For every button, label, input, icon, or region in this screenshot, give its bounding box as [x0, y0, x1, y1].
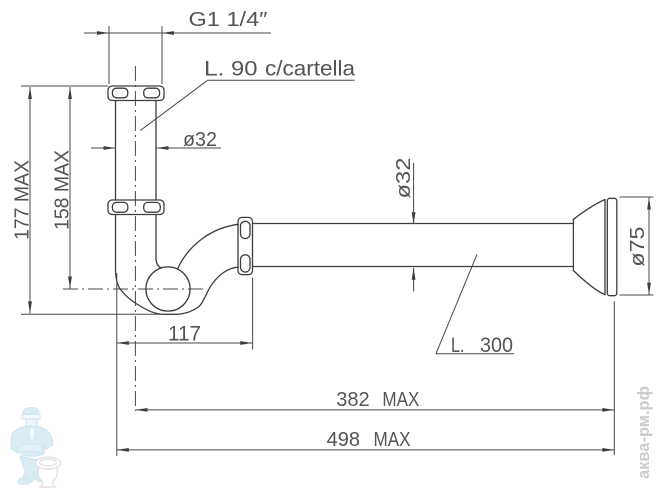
svg-text:MAX: MAX — [382, 389, 419, 411]
svg-text:300: 300 — [480, 334, 513, 357]
svg-text:117: 117 — [168, 323, 201, 346]
svg-text:аква-рм.рф: аква-рм.рф — [634, 386, 653, 479]
svg-text:ø32: ø32 — [183, 129, 217, 151]
svg-text:ø75: ø75 — [627, 227, 649, 267]
svg-text:MAX: MAX — [374, 429, 411, 451]
svg-text:498: 498 — [327, 429, 360, 451]
svg-text:c/cartella: c/cartella — [265, 58, 355, 81]
svg-text:L.: L. — [204, 58, 225, 81]
svg-text:G1 1/4″: G1 1/4″ — [189, 9, 268, 31]
svg-text:158 MAX: 158 MAX — [52, 150, 74, 230]
svg-text:ø32: ø32 — [393, 158, 415, 199]
svg-text:L.: L. — [451, 334, 465, 357]
svg-text:382: 382 — [336, 389, 369, 411]
svg-text:90: 90 — [231, 58, 258, 81]
svg-text:177 MAX: 177 MAX — [11, 160, 33, 240]
